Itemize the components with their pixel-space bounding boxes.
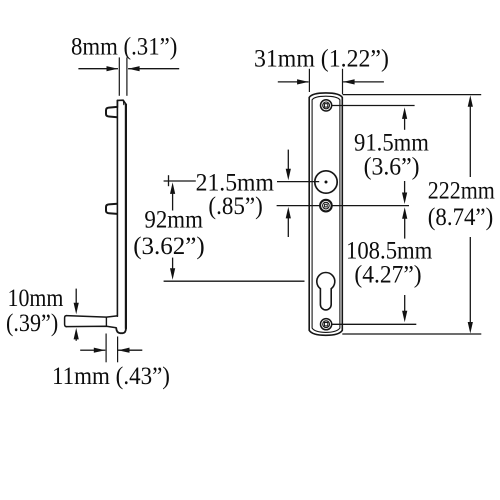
front view: backplate outline (outer) [309, 93, 342, 335]
svg-text:92mm: 92mm [144, 207, 203, 234]
front view bottom screw [321, 319, 332, 330]
side view: backplate profile [117, 100, 126, 328]
side view bottom foot bar [65, 316, 117, 328]
8mm extension lines [118, 57, 120, 95]
svg-text:31mm (1.22”): 31mm (1.22”) [254, 45, 389, 73]
31mm extension lines [308, 69, 310, 92]
front view backplate inner border [312, 96, 340, 332]
extension line: plate top [343, 94, 482, 96]
svg-text:(.39”): (.39”) [6, 310, 58, 338]
leader: top screw centerline [332, 105, 415, 107]
handle hub center dot [325, 181, 328, 184]
dimension 108.5mm arrows [402, 207, 407, 219]
leader: handle hub centerline left (92mm top ref) [164, 180, 196, 182]
svg-text:(4.27”): (4.27”) [354, 261, 421, 289]
extension line: plate bottom [342, 333, 481, 335]
side view left edge [116, 100, 118, 316]
leader: handle hub centerline right [277, 181, 319, 183]
svg-text:(3.6”): (3.6”) [364, 153, 420, 181]
svg-text:(3.62”): (3.62”) [133, 233, 205, 260]
dimension 222mm overall height [468, 95, 473, 107]
side view top cap [117, 100, 126, 107]
svg-text:11mm (.43”): 11mm (.43”) [52, 363, 170, 390]
side view fixing lug bottom [106, 204, 117, 214]
front view middle screw [320, 200, 332, 212]
dimension 8mm thickness [78, 68, 108, 70]
side view fixing lug top [106, 107, 117, 117]
svg-text:222mm: 222mm [428, 177, 495, 205]
tick on 92mm top ref [168, 175, 170, 186]
svg-text:10mm: 10mm [8, 285, 64, 313]
11mm extension lines [105, 334, 107, 363]
svg-text:(.85”): (.85”) [208, 193, 262, 220]
dimension 11mm foot depth [80, 349, 95, 351]
side view bottom rounded end [116, 328, 126, 333]
dimension 10mm foot height arrows [75, 289, 77, 304]
front view top screw [321, 100, 332, 111]
front view handle hub hole [315, 171, 337, 193]
svg-text:8mm (.31”): 8mm (.31”) [71, 34, 177, 61]
leader: keyhole centerline (92mm bottom ref) [164, 280, 305, 282]
dimension 31mm width [278, 81, 298, 83]
dimension 21.5mm arrows [287, 150, 289, 171]
dimension 92mm (handle to cylinder) arrows [170, 182, 175, 194]
side view right edge [125, 105, 127, 329]
leader: bottom screw centerline [332, 323, 416, 325]
front view euro cylinder keyhole [317, 273, 335, 310]
dimension 91.5mm arrows [402, 107, 407, 119]
leader: middle screw centerline right [332, 205, 410, 207]
svg-text:(8.74”): (8.74”) [428, 204, 493, 231]
leader: middle screw centerline left [277, 205, 321, 207]
